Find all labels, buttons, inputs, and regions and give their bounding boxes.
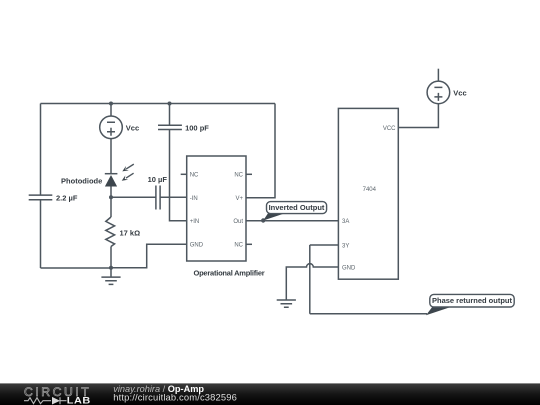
junction node top-A bbox=[109, 102, 113, 106]
wire 100pF to +IN bbox=[170, 130, 187, 221]
wire 7404 GND with hop bbox=[286, 264, 338, 300]
flag Phase returned output box bbox=[430, 294, 514, 307]
wire bottom left bbox=[41, 267, 112, 269]
capacitor C_2.2uF plates bbox=[29, 195, 53, 200]
wire V2 top stub bbox=[437, 69, 439, 81]
svg-text:10 µF: 10 µF bbox=[148, 175, 168, 184]
junction node top-B bbox=[168, 102, 172, 106]
wire Out to 7404 3A bbox=[246, 220, 338, 222]
svg-text:7404: 7404 bbox=[363, 187, 377, 193]
photodiode D1 bbox=[105, 173, 118, 175]
wire 100pF top stub bbox=[169, 104, 171, 126]
op-amp U1 body bbox=[187, 156, 246, 261]
junction node photodiode/-IN bbox=[109, 195, 113, 199]
svg-text:NC: NC bbox=[234, 242, 243, 248]
7404 U2 body bbox=[338, 108, 398, 279]
wire -IN right segment bbox=[160, 196, 187, 198]
svg-text:Operational Amplifier: Operational Amplifier bbox=[194, 268, 265, 277]
wire Vcc source top stub bbox=[110, 104, 112, 117]
wire 7404 VCC to source bbox=[398, 104, 438, 128]
svg-text:Photodiode: Photodiode bbox=[61, 177, 102, 186]
light arrow 1 bbox=[126, 164, 134, 169]
wire source to photodiode bbox=[110, 139, 112, 174]
svg-text:17 kΩ: 17 kΩ bbox=[120, 229, 141, 238]
svg-text:NC: NC bbox=[190, 172, 199, 178]
voltage source V1 Vcc circle bbox=[100, 116, 123, 139]
svg-text:+IN: +IN bbox=[190, 219, 200, 225]
svg-text:VCC: VCC bbox=[383, 126, 396, 132]
op-amp NC stub right top bbox=[246, 173, 252, 175]
svg-text:Phase returned output: Phase returned output bbox=[432, 296, 513, 305]
flag Phase returned output tail bbox=[426, 307, 450, 316]
flag Inverted Output tail bbox=[263, 213, 285, 221]
logo diode triangle bbox=[52, 397, 60, 405]
logo resistor zigzag + diode bbox=[24, 397, 67, 404]
footer bar bbox=[0, 383, 540, 405]
op-amp NC stub right bottom bbox=[246, 243, 252, 245]
capacitor C_100pF plates bbox=[158, 125, 182, 129]
voltage source V2 Vcc circle bbox=[427, 81, 450, 104]
light arrow 2 bbox=[126, 173, 134, 178]
svg-text:LAB: LAB bbox=[67, 396, 91, 405]
light arrowhead 2 bbox=[122, 175, 128, 180]
svg-text:2.2 µF: 2.2 µF bbox=[56, 194, 78, 203]
wire photodiode to junction bbox=[110, 187, 112, 218]
op-amp NC stub left bbox=[181, 173, 187, 175]
svg-text:-IN: -IN bbox=[190, 196, 198, 202]
svg-text:http://circuitlab.com/c382596: http://circuitlab.com/c382596 bbox=[113, 392, 237, 403]
svg-text:3A: 3A bbox=[342, 219, 349, 225]
wire junction to op-amp GND bbox=[111, 244, 187, 267]
wire left vertical upper bbox=[40, 104, 42, 196]
junction node resistor/ground bbox=[109, 266, 113, 270]
svg-text:Vcc: Vcc bbox=[126, 123, 139, 132]
svg-text:V+: V+ bbox=[235, 196, 243, 202]
light arrowhead 1 bbox=[122, 166, 128, 171]
ground GND2 bbox=[277, 300, 296, 307]
wire V+ to top rail bbox=[246, 104, 275, 198]
svg-text:GND: GND bbox=[190, 242, 204, 248]
svg-text:Inverted Output: Inverted Output bbox=[269, 203, 325, 212]
svg-text:GND: GND bbox=[342, 265, 356, 271]
resistor R_17k zigzag bbox=[106, 217, 115, 247]
flag Inverted Output box bbox=[267, 202, 327, 214]
capacitor C_10uF plates bbox=[156, 186, 160, 210]
wire 7404 3Y down and right bbox=[310, 245, 427, 314]
wire left vertical lower bbox=[40, 200, 42, 268]
wire top rail bbox=[41, 103, 276, 105]
svg-text:3Y: 3Y bbox=[342, 244, 349, 250]
wire -IN left segment bbox=[111, 196, 156, 198]
wire resistor to ground junction bbox=[110, 247, 112, 268]
svg-text:NC: NC bbox=[234, 172, 243, 178]
svg-text:100 pF: 100 pF bbox=[185, 124, 209, 133]
junction node out-flag bbox=[261, 218, 265, 222]
ground GND1 bbox=[101, 268, 120, 285]
svg-text:Vcc: Vcc bbox=[453, 88, 466, 97]
svg-text:Out: Out bbox=[233, 219, 243, 225]
